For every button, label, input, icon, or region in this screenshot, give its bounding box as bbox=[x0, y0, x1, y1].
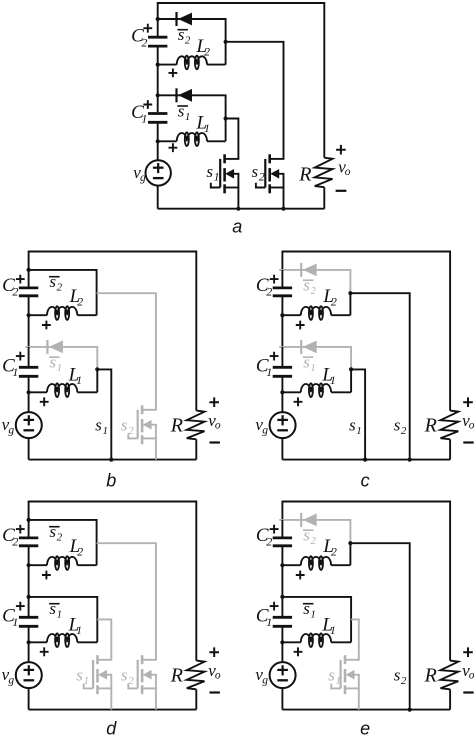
wire: rail C1 to source (c) bbox=[281, 392, 283, 412]
svg-text:1: 1 bbox=[336, 675, 342, 687]
svg-text:2: 2 bbox=[310, 535, 316, 547]
svg-text:g: g bbox=[8, 674, 14, 686]
svg-text:o: o bbox=[215, 420, 221, 432]
wire: outer loop top/right (a) bbox=[158, 3, 325, 158]
wire: source to bottom (a) bbox=[157, 186, 159, 209]
svg-text:2: 2 bbox=[141, 35, 147, 49]
plus mark L1 polarity (b) bbox=[40, 397, 49, 406]
wire: left rail mid segment (b) bbox=[28, 315, 30, 347]
wire: resistor bottom lead (c) bbox=[449, 439, 451, 459]
capacitor C2 (d) bbox=[28, 520, 30, 537]
wire: gray s2 branch to mosfet (d) bbox=[97, 543, 156, 660]
svg-text:1: 1 bbox=[57, 609, 63, 621]
wire: source to bottom (c) bbox=[281, 438, 283, 460]
node: C1 top junction (d) bbox=[27, 595, 31, 599]
svg-text:1: 1 bbox=[266, 365, 272, 379]
wire: s2bar closed loop (b) bbox=[29, 270, 97, 315]
svg-text:R: R bbox=[170, 415, 183, 437]
transistor s2 gray (d) bbox=[141, 655, 144, 664]
svg-text:e: e bbox=[360, 719, 370, 738]
svg-text:g: g bbox=[140, 172, 146, 184]
svg-text:s: s bbox=[49, 272, 56, 291]
plus mark L2 polarity (c) bbox=[296, 321, 305, 330]
inductor L2 (c) bbox=[282, 314, 300, 316]
wire: rail C1 to source (e) bbox=[281, 642, 283, 662]
svg-text:1: 1 bbox=[12, 365, 18, 379]
wire: resistor bottom lead (d) bbox=[195, 689, 197, 709]
node: s2 tap junction (a) bbox=[224, 40, 228, 44]
node: C1 bottom junction (a) bbox=[156, 139, 160, 143]
wire: left rail mid segment (a) bbox=[157, 65, 159, 96]
svg-text:2: 2 bbox=[401, 425, 407, 437]
wire: rail C1 to source (b) bbox=[28, 392, 30, 412]
output plus (d) bbox=[209, 647, 219, 657]
node: tap junction s1 (b) bbox=[95, 367, 99, 371]
wire: diode branch s2bar (a) bbox=[158, 19, 226, 65]
plus mark C2 polarity (e) bbox=[270, 525, 279, 534]
svg-text:2: 2 bbox=[128, 675, 134, 687]
wire: gray diode branch s1bar (c) bbox=[279, 347, 351, 370]
wire: gray s2 branch to mosfet (b) bbox=[97, 293, 156, 410]
svg-text:1: 1 bbox=[204, 121, 210, 135]
wire: resistor bottom lead (b) bbox=[195, 439, 197, 459]
svg-text:s: s bbox=[206, 162, 213, 181]
node: C1 top junction (a) bbox=[156, 93, 160, 97]
node: s2 source junction (a) bbox=[281, 207, 285, 211]
node: s2 bottom junction (e) bbox=[408, 708, 412, 712]
svg-text:s: s bbox=[394, 416, 401, 435]
svg-text:2: 2 bbox=[12, 535, 18, 549]
inductor L2 (e) bbox=[282, 564, 300, 566]
svg-text:o: o bbox=[469, 420, 474, 432]
svg-text:R: R bbox=[298, 163, 311, 185]
transistor s2 (a) bbox=[268, 154, 271, 163]
wire: resistor bottom lead (e) bbox=[449, 689, 451, 709]
wire: gray diode branch s2bar (e) bbox=[279, 520, 350, 543]
wire: left rail top segment (c) bbox=[281, 251, 283, 270]
resistor R (e) bbox=[441, 661, 459, 690]
voltage source vg (e) bbox=[270, 662, 296, 688]
wire: bottom rail (e) bbox=[282, 709, 450, 711]
svg-text:2: 2 bbox=[12, 285, 18, 299]
wire: bottom rail (b) bbox=[29, 459, 197, 461]
svg-text:1: 1 bbox=[76, 373, 82, 387]
inductor L2 (b) bbox=[29, 314, 47, 316]
svg-text:1: 1 bbox=[330, 373, 336, 387]
svg-text:g: g bbox=[262, 424, 268, 436]
wire: bottom rail (a) bbox=[158, 208, 325, 210]
svg-text:o: o bbox=[215, 670, 221, 682]
node: C1 bottom junction (c) bbox=[280, 390, 284, 394]
wire: outer loop top/right (d) bbox=[29, 502, 197, 661]
output minus (b) bbox=[210, 441, 220, 443]
svg-text:2: 2 bbox=[185, 35, 191, 47]
plus mark L1 polarity (e) bbox=[294, 647, 303, 656]
svg-text:2: 2 bbox=[204, 44, 210, 58]
wire: tap to s2 drain (a) bbox=[226, 42, 284, 159]
node: s1 bottom junction (c) bbox=[363, 458, 367, 462]
plus mark C1 polarity (b) bbox=[16, 352, 25, 361]
wire: outer loop top/right (b) bbox=[29, 252, 197, 411]
svg-text:s: s bbox=[49, 599, 56, 618]
wire: s1bar closed loop (e) bbox=[282, 597, 351, 642]
svg-text:2: 2 bbox=[77, 295, 83, 309]
node: tap junction s2 (c) bbox=[348, 291, 352, 295]
wire: tap to s1 drain (a) bbox=[226, 119, 239, 159]
node: tap junction s1 (c) bbox=[349, 367, 353, 371]
plus mark L1 polarity (c) bbox=[294, 397, 303, 406]
wire: left rail top segment (e) bbox=[281, 501, 283, 520]
svg-text:2: 2 bbox=[266, 535, 272, 549]
wire: left rail mid segment (d) bbox=[28, 565, 30, 597]
svg-text:s: s bbox=[394, 666, 401, 685]
node: s1 tap junction (a) bbox=[224, 116, 228, 120]
node: s1 source junction (a) bbox=[236, 207, 240, 211]
svg-text:2: 2 bbox=[128, 425, 134, 437]
wire: diode branch s1bar (a) bbox=[158, 95, 226, 141]
node: C2 bottom junction (a) bbox=[156, 63, 160, 67]
svg-text:2: 2 bbox=[57, 282, 63, 294]
wire: loop edge to L1 (b) bbox=[96, 369, 98, 392]
wire: s2bar closed loop (d) bbox=[29, 520, 97, 565]
node: C1 bottom junction (d) bbox=[27, 640, 31, 644]
svg-text:1: 1 bbox=[103, 425, 109, 437]
svg-text:s: s bbox=[303, 353, 310, 372]
svg-text:d: d bbox=[106, 719, 117, 738]
wire: left rail top segment (b) bbox=[28, 251, 30, 270]
plus mark C2 polarity (a) bbox=[143, 24, 152, 33]
wire: outer loop top/right (e) bbox=[282, 502, 450, 661]
svg-text:a: a bbox=[232, 217, 242, 237]
svg-text:s: s bbox=[328, 666, 335, 685]
wire: loop edge to L1 (c) bbox=[350, 369, 352, 392]
resistor R (b) bbox=[187, 411, 205, 440]
voltage source vg (c) bbox=[270, 412, 296, 438]
wire: bottom rail (c) bbox=[282, 459, 450, 461]
resistor R (d) bbox=[187, 661, 205, 690]
svg-text:o: o bbox=[469, 670, 474, 682]
transistor s1 gray (e) bbox=[344, 655, 347, 664]
plus mark L2 polarity (e) bbox=[296, 571, 305, 580]
output plus (b) bbox=[209, 397, 219, 407]
svg-text:2: 2 bbox=[259, 169, 265, 183]
svg-text:1: 1 bbox=[12, 615, 18, 629]
svg-text:s: s bbox=[95, 416, 102, 435]
svg-text:1: 1 bbox=[185, 111, 191, 123]
diode s1bar (a) bbox=[175, 88, 177, 102]
svg-text:1: 1 bbox=[76, 623, 82, 637]
diode s2bar (a) bbox=[175, 12, 177, 26]
svg-text:R: R bbox=[424, 415, 437, 437]
output minus (a) bbox=[336, 190, 347, 192]
svg-text:s: s bbox=[303, 276, 310, 295]
diode s1bar gray (b) bbox=[46, 340, 48, 354]
svg-text:2: 2 bbox=[77, 545, 83, 559]
svg-text:c: c bbox=[361, 471, 370, 491]
node: C2 top junction (a) bbox=[156, 17, 160, 21]
svg-text:s: s bbox=[349, 416, 356, 435]
capacitor C1 (c) bbox=[281, 347, 283, 366]
svg-text:s: s bbox=[49, 522, 56, 541]
svg-text:s: s bbox=[121, 666, 128, 685]
svg-text:1: 1 bbox=[356, 425, 362, 437]
inductor L2 (d) bbox=[29, 564, 47, 566]
wire: left rail mid segment (c) bbox=[281, 315, 283, 347]
svg-text:b: b bbox=[106, 471, 116, 491]
inductor L1 (e) bbox=[282, 641, 300, 643]
inductor L1 (c) bbox=[282, 391, 300, 393]
voltage source vg (d) bbox=[16, 662, 42, 688]
voltage source vg (a) bbox=[146, 160, 171, 185]
node: C1 bottom junction (e) bbox=[280, 640, 284, 644]
capacitor C1 (b) bbox=[28, 347, 30, 366]
svg-text:1: 1 bbox=[310, 609, 316, 621]
diode s2bar gray (e) bbox=[300, 513, 302, 527]
svg-text:2: 2 bbox=[331, 545, 337, 559]
diode s1bar gray (c) bbox=[300, 340, 302, 354]
inductor L2 (a) bbox=[158, 64, 177, 66]
wire: outer loop top/right (c) bbox=[282, 252, 450, 411]
svg-text:R: R bbox=[170, 665, 183, 687]
svg-text:1: 1 bbox=[141, 112, 147, 126]
output plus (a) bbox=[336, 145, 346, 155]
capacitor C1 (d) bbox=[28, 597, 30, 616]
capacitor C2 (b) bbox=[28, 270, 30, 287]
transistor s2 gray (b) bbox=[141, 405, 144, 414]
svg-text:g: g bbox=[262, 674, 268, 686]
wire: left rail top segment (d) bbox=[28, 501, 30, 520]
wire: source to bottom (e) bbox=[281, 688, 283, 710]
svg-text:2: 2 bbox=[310, 285, 316, 297]
capacitor C2 (e) bbox=[281, 520, 283, 537]
output plus (e) bbox=[463, 647, 473, 657]
svg-text:2: 2 bbox=[331, 295, 337, 309]
node: C2 bottom junction (c) bbox=[280, 313, 284, 317]
output minus (c) bbox=[463, 441, 473, 443]
svg-text:s: s bbox=[303, 599, 310, 618]
svg-text:1: 1 bbox=[84, 675, 90, 687]
plus mark L1 polarity (d) bbox=[40, 647, 49, 656]
resistor R (c) bbox=[441, 411, 459, 440]
wire: left rail mid segment (e) bbox=[281, 565, 283, 597]
svg-text:1: 1 bbox=[57, 362, 63, 374]
output minus (e) bbox=[463, 691, 473, 693]
wire: source to bottom (d) bbox=[28, 688, 30, 710]
inductor L1 (a) bbox=[158, 140, 177, 142]
plus mark C1 polarity (a) bbox=[143, 100, 152, 109]
output plus (c) bbox=[463, 397, 473, 407]
wire: rail C1 to source (d) bbox=[28, 642, 30, 662]
node: C2 bottom junction (e) bbox=[280, 563, 284, 567]
capacitor C1 (e) bbox=[281, 597, 283, 616]
wire: loop edge to L2 (e) bbox=[349, 543, 351, 565]
wire: gray s1 branch to mosfet (d) bbox=[97, 619, 111, 659]
svg-text:s: s bbox=[76, 666, 83, 685]
node: C1 top junction (e) bbox=[280, 595, 284, 599]
svg-text:s: s bbox=[252, 162, 259, 181]
node: s2 bottom junction (c) bbox=[408, 458, 412, 462]
wire: gray diode branch s2bar (c) bbox=[279, 270, 350, 293]
node: C2 bottom junction (b) bbox=[27, 313, 31, 317]
wire: s1bar closed loop (d) bbox=[29, 597, 98, 642]
svg-text:1: 1 bbox=[310, 362, 316, 374]
capacitor C2 (a) bbox=[157, 19, 159, 36]
wire: s1 branch (c) bbox=[351, 369, 365, 459]
wire: bottom rail (d) bbox=[29, 709, 197, 711]
plus mark C2 polarity (c) bbox=[270, 275, 279, 284]
node: s1 bottom junction (b) bbox=[109, 458, 113, 462]
node: C2 top junction (d) bbox=[27, 518, 31, 522]
plus mark L2 polarity (d) bbox=[42, 571, 51, 580]
plus mark L2 polarity (a) bbox=[169, 69, 178, 78]
svg-text:2: 2 bbox=[266, 285, 272, 299]
plus mark C2 polarity (b) bbox=[16, 275, 25, 284]
svg-text:2: 2 bbox=[57, 532, 63, 544]
svg-text:s: s bbox=[178, 102, 185, 121]
inductor L1 (d) bbox=[29, 641, 47, 643]
node: C2 top junction (b) bbox=[27, 268, 31, 272]
svg-text:2: 2 bbox=[401, 675, 407, 687]
transistor s1 (a) bbox=[223, 154, 226, 163]
plus mark C1 polarity (d) bbox=[16, 602, 25, 611]
wire: gray diode branch s1bar (b) bbox=[25, 347, 97, 370]
voltage source vg (b) bbox=[16, 412, 42, 438]
wire: rail C1 to source (a) bbox=[157, 141, 159, 160]
wire: left rail top segment (a) bbox=[157, 2, 159, 19]
inductor L1 (b) bbox=[29, 391, 47, 393]
plus mark L2 polarity (b) bbox=[42, 321, 51, 330]
wire: gray s1 branch to mosfet (e) bbox=[351, 619, 359, 659]
node: C2 bottom junction (d) bbox=[27, 563, 31, 567]
plus mark C2 polarity (d) bbox=[16, 525, 25, 534]
wire: source to bottom (b) bbox=[28, 438, 30, 460]
svg-text:s: s bbox=[121, 416, 128, 435]
wire: resistor bottom lead (a) bbox=[323, 187, 325, 209]
node: tap junction s2 (e) bbox=[348, 541, 352, 545]
transistor s1 gray (d) bbox=[96, 655, 99, 664]
plus mark C1 polarity (c) bbox=[270, 352, 279, 361]
svg-text:s: s bbox=[303, 526, 310, 545]
svg-text:g: g bbox=[8, 424, 14, 436]
output minus (d) bbox=[210, 691, 220, 693]
svg-text:1: 1 bbox=[266, 615, 272, 629]
svg-text:s: s bbox=[49, 353, 56, 372]
wire: s2 branch (c) bbox=[350, 293, 409, 459]
plus mark C1 polarity (e) bbox=[270, 602, 279, 611]
capacitor C1 (a) bbox=[157, 95, 159, 112]
diode s2bar gray (c) bbox=[300, 263, 302, 277]
capacitor C2 (c) bbox=[281, 270, 283, 287]
wire: loop edge to L2 (c) bbox=[349, 293, 351, 315]
resistor R (a) bbox=[315, 158, 333, 188]
wire: s2 branch (e) bbox=[350, 543, 409, 709]
node: C1 bottom junction (b) bbox=[27, 390, 31, 394]
svg-text:1: 1 bbox=[214, 169, 220, 183]
wire: s1 branch (b) bbox=[97, 369, 111, 459]
svg-text:R: R bbox=[424, 665, 437, 687]
svg-text:o: o bbox=[345, 166, 351, 178]
plus mark L1 polarity (a) bbox=[169, 143, 178, 152]
svg-text:1: 1 bbox=[330, 623, 336, 637]
svg-text:s: s bbox=[178, 25, 185, 44]
